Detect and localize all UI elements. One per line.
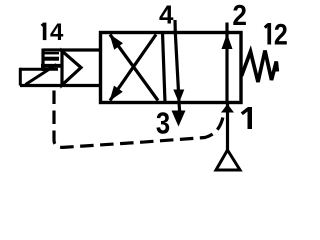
- svg-text:4: 4: [50, 19, 64, 46]
- svg-text:4: 4: [159, 0, 174, 29]
- svg-text:3: 3: [156, 106, 170, 141]
- svg-text:2: 2: [232, 0, 247, 31]
- svg-text:2: 2: [274, 18, 288, 51]
